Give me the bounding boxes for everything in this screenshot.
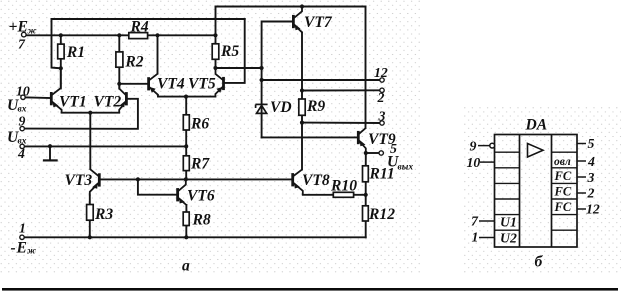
terminal pin 2 (380, 88, 384, 92)
wire VT8 collector column (301, 123, 303, 170)
svg-text:R3: R3 (94, 206, 113, 223)
svg-text:R4: R4 (130, 18, 149, 35)
resistor R6 (183, 115, 189, 130)
wire -E bottom rail (22, 236, 366, 238)
transistor VT4 (149, 74, 158, 97)
junction R2 bottom / VT4 base (117, 82, 121, 86)
svg-text:2: 2 (377, 90, 385, 105)
svg-text:3: 3 (378, 109, 386, 124)
resistor R12 (363, 206, 369, 221)
op-amp triangle (528, 144, 544, 158)
junction wire 12 tap (260, 78, 264, 82)
junction R5 top / rail end (213, 33, 217, 37)
wire VT5 base column (225, 19, 245, 83)
svg-text:9: 9 (19, 113, 26, 128)
svg-text:R12: R12 (368, 206, 395, 223)
svg-text:вых: вых (398, 162, 414, 172)
svg-text:7: 7 (18, 37, 26, 52)
wire terminal 9 (22, 99, 138, 129)
junction R6 R7 / wire 4 (184, 144, 188, 148)
svg-text:U1: U1 (500, 215, 517, 230)
svg-text:VT4: VT4 (157, 75, 185, 92)
svg-text:VT5: VT5 (188, 75, 216, 92)
junction VD top / VT7 base (260, 66, 264, 70)
junction R9 top / VT7 emitter / wire 2 (300, 88, 304, 92)
svg-text:10: 10 (467, 155, 481, 170)
terminal pin 3 (380, 121, 384, 125)
wire VT6 base jog (138, 179, 177, 194)
wire R3 column (89, 196, 91, 238)
wire VT6 emitter to R8 (185, 205, 187, 237)
wire +E rail (25, 34, 216, 36)
terminal pin 1 -E (20, 235, 24, 239)
DA pin 7 (479, 220, 495, 222)
resistor R10 (333, 192, 353, 197)
svg-text:U2: U2 (500, 231, 517, 246)
resistor R9 (299, 99, 305, 115)
svg-text:5: 5 (588, 136, 595, 151)
wire R6 R7 column (185, 97, 187, 180)
wire R12 column (365, 195, 367, 238)
svg-text:DA: DA (525, 117, 548, 134)
transistor VT8 (293, 170, 303, 195)
wire R11 column (365, 153, 367, 195)
wire output node to terminal 5 (366, 152, 379, 154)
svg-text:VT2: VT2 (94, 93, 122, 110)
svg-text:-: - (11, 240, 16, 257)
junction R4 right / VT4 collector (155, 33, 159, 37)
chassis stem (49, 146, 51, 160)
svg-text:3: 3 (587, 170, 595, 185)
wire terminal 10 (23, 96, 51, 99)
wire top line A (52, 18, 245, 20)
svg-text:R9: R9 (306, 98, 325, 115)
transistor VT7 (293, 7, 302, 34)
terminal pin 9 input (20, 126, 24, 130)
wire VT7 emitter to R9 (301, 33, 303, 123)
svg-text:E: E (16, 240, 27, 257)
svg-text:2: 2 (587, 186, 595, 201)
junction R10 R11 R12 (364, 193, 368, 197)
resistor R8 (183, 212, 189, 226)
svg-text:а: а (182, 258, 190, 275)
wire terminal 2 (302, 89, 380, 91)
junction VT7 collector on top line (300, 4, 304, 8)
transistor VT2 (119, 84, 126, 113)
junction wire 4 chassis tap (48, 144, 52, 148)
terminal pin 12 (380, 78, 384, 82)
junction VT4 VT5 emitters / R6 top (184, 95, 188, 99)
transistor VT9 (358, 128, 366, 153)
svg-text:E: E (17, 19, 28, 36)
svg-text:R8: R8 (192, 212, 211, 229)
svg-text:овл: овл (554, 156, 571, 168)
junction R1 bottom / VT1 collector (59, 66, 63, 70)
wire VT7 base (262, 22, 293, 69)
terminal pin 4 (20, 144, 24, 148)
wire R1 column (60, 35, 62, 68)
svg-text:9: 9 (470, 139, 477, 154)
DA pin 3 (577, 176, 586, 178)
wire VT1 VT2 common emitters (62, 112, 120, 114)
svg-text:VT3: VT3 (65, 172, 93, 189)
svg-text:4: 4 (17, 146, 25, 161)
wire VD to VT9 base (262, 136, 358, 138)
junction VT6 base tap (136, 177, 140, 181)
bottom rule (2, 288, 618, 291)
svg-text:7: 7 (471, 213, 479, 228)
svg-text:R10: R10 (330, 178, 357, 195)
svg-text:12: 12 (374, 65, 388, 80)
junction R9 bottom / VT8 collector / wire 3 (300, 121, 304, 125)
svg-text:FC: FC (554, 185, 572, 199)
wire VT1 collector column (60, 68, 62, 88)
svg-text:12: 12 (586, 202, 600, 217)
wire terminal 12 (262, 79, 380, 81)
DA right column cell dividers (552, 152, 577, 230)
svg-text:ж: ж (28, 27, 37, 37)
svg-text:R5: R5 (220, 43, 239, 60)
transistor VT5 (215, 68, 223, 97)
resistor R7 (183, 156, 189, 171)
diode VD (256, 104, 268, 113)
svg-text:VT6: VT6 (187, 187, 215, 204)
svg-text:VT7: VT7 (304, 14, 333, 31)
wire top line B (216, 6, 366, 8)
svg-text:VT8: VT8 (302, 172, 330, 189)
chassis bar (44, 159, 57, 161)
terminal pin 7 +E (22, 32, 27, 37)
svg-text:R7: R7 (190, 156, 210, 173)
DA pin 2 (577, 192, 586, 194)
resistor R3 (87, 205, 94, 221)
svg-text:4: 4 (587, 154, 595, 169)
wire R5 column (215, 7, 217, 69)
resistor R5 (212, 44, 219, 60)
DA block outline (495, 135, 578, 248)
svg-text:FC: FC (554, 200, 572, 214)
wire VT8 emitter R10 link (303, 194, 366, 196)
resistor R11 (363, 166, 369, 182)
wire right supply column (365, 7, 367, 129)
transistor VT6 (178, 179, 187, 205)
wire terminal 3 (302, 122, 380, 124)
junction R5 bottom / VT5 collector (213, 66, 217, 70)
svg-text:б: б (535, 254, 544, 271)
wire R5 bottom to VD top (216, 67, 262, 69)
junction R7 bottom / VT6 collector (184, 177, 188, 181)
DA pin 4 (577, 160, 586, 162)
wire VT3 base to VT8 base (100, 178, 292, 180)
transistor VT3 (90, 169, 100, 196)
svg-text:R2: R2 (124, 53, 143, 70)
wire VT4 base (119, 83, 148, 85)
wire VT4 collector column (157, 35, 159, 73)
svg-text:+: + (9, 19, 18, 36)
svg-text:VT1: VT1 (59, 93, 87, 110)
DA pin 9 (478, 143, 495, 148)
terminal pin 5 output (379, 151, 383, 155)
wire VT3 collector column (89, 113, 91, 169)
svg-text:вх: вх (18, 136, 27, 146)
wire VD column (261, 68, 263, 137)
DA left column cell dividers (495, 152, 520, 230)
wire left bypass R1 bottom (52, 19, 61, 68)
svg-text:1: 1 (19, 220, 26, 235)
svg-text:FC: FC (554, 169, 572, 183)
resistor R1 (58, 44, 64, 59)
resistor R2 (116, 52, 123, 67)
svg-text:ж: ж (27, 247, 36, 257)
DA pin 1 (479, 237, 495, 239)
wire terminal 4 (22, 145, 186, 147)
junction R1 top on +E rail (59, 33, 63, 37)
junction VT9 emitter / R11 top / output (364, 151, 368, 155)
svg-text:R1: R1 (66, 44, 85, 61)
DA pin 5 (577, 143, 586, 145)
svg-text:R6: R6 (190, 116, 209, 133)
transistor VT1 (51, 68, 61, 112)
junction R3 bottom on -E rail (88, 235, 92, 239)
wire VT4 VT5 common emitters (158, 96, 215, 98)
DA pin 10 (480, 161, 495, 163)
svg-text:1: 1 (472, 229, 479, 244)
junction R8 bottom on -E rail (184, 235, 188, 239)
DA pin 12 (577, 208, 586, 210)
terminal pin 10 input (21, 95, 25, 99)
resistor R4 (129, 33, 148, 39)
svg-text:VD: VD (270, 99, 292, 116)
junction VT1 VT2 emitters / VT3 collector (88, 111, 92, 115)
wire R2 column (118, 35, 120, 88)
junction R2 top / R4 left (117, 33, 121, 37)
